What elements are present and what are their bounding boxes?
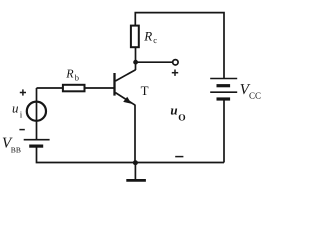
svg-text:b: b: [75, 73, 79, 83]
svg-text:BB: BB: [11, 145, 21, 154]
resistor R_c: [131, 26, 139, 48]
wire bottom rail: [37, 146, 225, 163]
wire top rail: [135, 13, 224, 79]
wire emitter vertical: [134, 105, 136, 163]
source plus: [20, 89, 26, 95]
wire collector to Rc: [135, 47, 137, 62]
wire right vertical lower: [223, 99, 225, 163]
svg-text:c: c: [153, 35, 157, 45]
svg-text:u: u: [12, 101, 19, 116]
source u_i: [27, 102, 46, 121]
node collector junction: [133, 60, 138, 65]
wire output lead: [136, 61, 173, 63]
transistor T: [115, 62, 136, 105]
svg-text:R: R: [65, 67, 74, 81]
transistor emitter arrow: [123, 97, 131, 104]
node emitter junction: [133, 160, 138, 165]
output minus: [175, 156, 183, 158]
svg-text:O: O: [178, 114, 185, 124]
svg-text:i: i: [20, 110, 23, 120]
svg-text:T: T: [141, 83, 149, 98]
svg-text:CC: CC: [249, 90, 261, 100]
battery V_CC: [210, 79, 237, 100]
wire base lead: [37, 87, 63, 89]
wire left vertical through source: [36, 88, 38, 140]
source minus: [19, 129, 24, 131]
output terminal: [173, 60, 178, 65]
output plus: [172, 70, 178, 76]
svg-text:u: u: [170, 103, 177, 118]
battery V_BB: [24, 140, 50, 146]
ground: [134, 163, 136, 179]
svg-text:R: R: [143, 28, 152, 43]
resistor R_b: [63, 85, 85, 92]
